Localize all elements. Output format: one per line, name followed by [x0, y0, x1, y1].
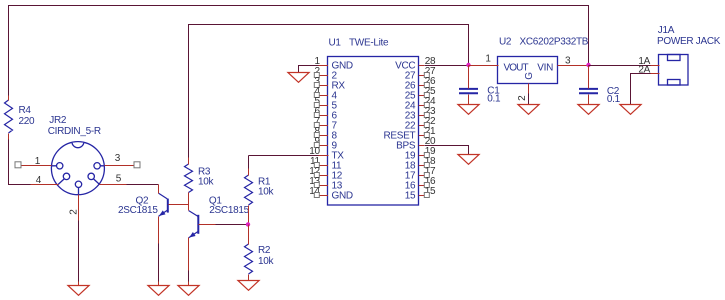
wire node to J1A pin 1A	[589, 65, 651, 67]
wire JR2 pin5 stub	[100, 184, 127, 186]
wire TX net R1 to U1 pin10	[249, 155, 319, 157]
svg-text:VOUT: VOUT	[504, 63, 529, 74]
wire JR2 pin2 ground stub	[78, 282, 80, 286]
U1 right pin 16 (16)	[419, 185, 425, 187]
U1 right pin 17 (17)	[419, 175, 425, 177]
wire Q2 emitter lead	[158, 217, 160, 244]
wire R3 top rail to VCC node	[189, 25, 469, 158]
wire U2 pin1 lead	[469, 65, 499, 67]
svg-text:4: 4	[36, 175, 42, 186]
regulator U2 XC6202P332TB body	[498, 57, 558, 84]
no-connect square JR2 pin3	[134, 162, 140, 168]
svg-text:R2: R2	[258, 245, 271, 256]
no-connect square JR2 pin1	[15, 162, 21, 168]
U1 right pin 18 (18)	[419, 165, 425, 167]
svg-text:220: 220	[19, 116, 36, 127]
U1 left pin 1 (GND)	[319, 65, 329, 67]
wire J1A pin 1A stub	[651, 65, 660, 67]
wire JR2 pin4 stub	[31, 184, 59, 186]
wire JR2 pin5 to Q2 collector	[127, 184, 159, 186]
resistor R1	[245, 175, 253, 205]
ground C2	[578, 105, 599, 115]
U1 left pin 10 (TX)	[319, 155, 329, 157]
svg-text:J1A: J1A	[658, 25, 675, 36]
U1 left pin 13 (13)	[319, 185, 329, 187]
svg-text:XC6202P332TB: XC6202P332TB	[520, 37, 589, 48]
svg-text:0.1: 0.1	[607, 94, 621, 105]
U1 right pin 19 (19)	[419, 155, 425, 157]
svg-text:2: 2	[68, 209, 79, 215]
svg-text:POWER JACK: POWER JACK	[657, 36, 721, 47]
wire JR2 pin1 stub	[22, 165, 52, 167]
U1 left pin 8 (8)	[319, 135, 329, 137]
svg-text:3: 3	[565, 56, 571, 67]
svg-text:1: 1	[35, 156, 41, 167]
wire R2 bottom lead	[248, 275, 250, 281]
wire JR2 pin2 to ground	[78, 221, 80, 282]
U1 left pin 3 (RX)	[319, 85, 329, 87]
wire Q1 collector lead	[188, 205, 190, 211]
wire J1A pin 2A to ground	[631, 74, 651, 105]
wire left border to JR2 pin4	[9, 140, 31, 185]
U1 left pin 12 (12)	[319, 175, 329, 177]
wire C1 top lead	[468, 66, 470, 89]
ground C1	[458, 105, 479, 115]
svg-text:2SC1815: 2SC1815	[118, 205, 158, 216]
junction node Q1 base / R1 / R2	[246, 222, 250, 226]
wire R1 bottom lead	[248, 206, 250, 225]
U1 left pin 11 (11)	[319, 165, 329, 167]
capacitor C2	[579, 89, 598, 93]
wire JR2 pin3 stub	[105, 165, 135, 167]
svg-text:JR2: JR2	[49, 115, 67, 126]
wire Q2 emitter to ground	[158, 244, 160, 282]
connector JR2 CIRDIN_5-R	[51, 142, 104, 195]
wire Q1 base lead	[199, 224, 216, 226]
svg-text:R4: R4	[19, 105, 32, 116]
wire U1 pin20 BPS to ground	[425, 146, 469, 155]
U1 right pin 21 (RESET)	[419, 135, 425, 137]
U1 right pin 28 (VCC)	[419, 65, 425, 67]
wire Q1 base to R1/R2 node	[216, 224, 249, 226]
svg-text:CIRDIN_5-R: CIRDIN_5-R	[48, 126, 101, 137]
U1 left pin 4 (4)	[319, 95, 329, 97]
wire U1 pin10 stub	[319, 155, 329, 157]
U1 left pin 9 (9)	[319, 145, 329, 147]
svg-text:15: 15	[405, 191, 416, 202]
junction node VIN / C2 / J1A	[586, 63, 590, 67]
ground U1 pin1	[288, 73, 309, 83]
transistor Q1 2SC1815	[189, 211, 199, 238]
svg-text:TWE-Lite: TWE-Lite	[349, 38, 389, 49]
ground Q2 emitter	[148, 286, 169, 296]
U1 right pin 27 (27)	[419, 75, 425, 77]
wire Q1 emitter to ground	[188, 271, 190, 282]
svg-text:G: G	[524, 72, 535, 80]
U1 left pin 5 (5)	[319, 105, 329, 107]
svg-text:1: 1	[485, 54, 491, 65]
wire R3 bottom lead	[188, 193, 190, 205]
wire U2 pin2 stub	[528, 84, 530, 94]
U1 left pin 7 (7)	[319, 125, 329, 127]
wire C2 bottom lead	[588, 95, 590, 105]
wire R4 top lead	[8, 96, 10, 101]
wire J1A pin 2A stub	[651, 73, 660, 75]
svg-text:3: 3	[115, 153, 121, 164]
wire U2 pin2 to ground	[528, 94, 530, 105]
wire Q2 base lead	[169, 204, 189, 206]
wire R3 top lead	[188, 158, 190, 165]
wire Q2 ground stub	[158, 282, 160, 286]
U1 left pin 2 (2)	[319, 75, 329, 77]
svg-text:5: 5	[116, 174, 122, 185]
U1 right pin 23 (23)	[419, 115, 425, 117]
U1 left pin 14 (GND)	[319, 195, 329, 197]
wire U1 pin28 VCC to node	[425, 65, 469, 67]
U1 right pin 25 (25)	[419, 95, 425, 97]
svg-text:GND: GND	[332, 191, 353, 202]
svg-text:10k: 10k	[258, 256, 275, 267]
wire Q1 emitter lead	[188, 238, 190, 271]
svg-text:VIN: VIN	[537, 63, 553, 74]
ground Q1 emitter	[178, 286, 199, 296]
resistor R2	[245, 244, 253, 274]
resistor R3	[185, 164, 193, 192]
wire C1 bottom lead	[468, 95, 470, 105]
wire R4 bottom lead	[8, 134, 10, 140]
svg-text:0.1: 0.1	[487, 93, 501, 104]
U1 right pin 20 (BPS)	[419, 145, 425, 147]
IC U1 TWE-Lite body	[328, 57, 419, 206]
wire Q2 collector lead	[158, 185, 160, 194]
svg-text:U1: U1	[329, 38, 342, 49]
wire Q1 ground stub	[188, 282, 190, 286]
wire R1 top lead	[248, 169, 250, 176]
U1 right pin 22 (22)	[419, 125, 425, 127]
wire R2 top lead	[248, 225, 250, 245]
U1 left pin 6 (6)	[319, 115, 329, 117]
U1 right pin 26 (26)	[419, 85, 425, 87]
svg-text:2: 2	[517, 95, 528, 101]
wire R1 top	[248, 156, 250, 169]
svg-text:2SC1815: 2SC1815	[209, 205, 249, 216]
U1 right pin 24 (24)	[419, 105, 425, 107]
ground U2 pin2	[518, 105, 539, 115]
svg-text:2A: 2A	[638, 64, 650, 75]
junction node VCC / C1 / U2 VOUT	[466, 63, 470, 67]
wire top border VCC rail	[9, 6, 589, 96]
wire U1 pin1 GND	[299, 66, 319, 73]
svg-text:10k: 10k	[198, 177, 215, 188]
ground J1A pin 2A	[620, 105, 641, 115]
wire U2 pin3 lead	[558, 65, 589, 67]
U1 right pin 15 (15)	[419, 195, 425, 197]
wire C2 top lead	[588, 66, 590, 89]
svg-text:U2: U2	[499, 37, 512, 48]
resistor R4	[5, 100, 13, 133]
connector J1A POWER JACK body	[659, 55, 689, 86]
transistor Q2 2SC1815	[159, 193, 168, 216]
svg-text:10k: 10k	[258, 187, 275, 198]
ground BPS	[458, 155, 479, 165]
wire JR2 pin2 stub	[78, 195, 80, 221]
capacitor C1	[459, 89, 478, 93]
ground R2	[238, 281, 259, 291]
ground JR2 pin2	[68, 286, 89, 296]
